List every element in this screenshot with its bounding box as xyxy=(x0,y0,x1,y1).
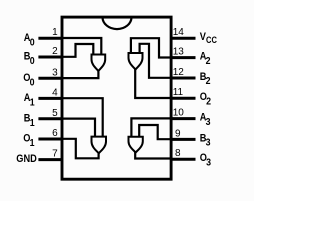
label VCC xyxy=(200,32,217,46)
wire gate2 output to pin6 O1 xyxy=(63,139,99,159)
gate U1c (top-right OR) xyxy=(129,53,143,70)
svg-text:10: 10 xyxy=(173,108,185,119)
pin 11 lead xyxy=(170,97,196,100)
svg-text:2: 2 xyxy=(52,46,58,57)
label GND xyxy=(16,153,37,165)
svg-text:0: 0 xyxy=(30,37,35,49)
wire pin12 B2 to gate3 right input xyxy=(140,44,170,78)
label O2 xyxy=(200,92,211,108)
svg-text:3: 3 xyxy=(52,67,58,78)
wire pin1 A0 to gate1 right input xyxy=(63,38,101,54)
pin 8 lead xyxy=(170,158,196,161)
svg-text:5: 5 xyxy=(52,108,58,119)
wire pin5 B1 to gate2 left input xyxy=(63,119,95,136)
svg-text:1: 1 xyxy=(30,97,35,109)
svg-text:3: 3 xyxy=(206,137,211,149)
svg-text:8: 8 xyxy=(175,148,181,159)
svg-text:2: 2 xyxy=(206,55,211,67)
svg-text:1: 1 xyxy=(30,138,35,150)
svg-text:2: 2 xyxy=(206,76,211,88)
label A0 xyxy=(24,32,35,49)
label O0 xyxy=(23,72,34,89)
pin 2 lead xyxy=(38,56,63,59)
pin 6 lead xyxy=(38,138,63,141)
svg-text:3: 3 xyxy=(206,116,211,128)
gate U1d (bottom-right OR) xyxy=(129,137,143,153)
wire pin2 B0 to gate1 left input xyxy=(63,44,93,57)
pin 14 lead xyxy=(170,37,196,40)
svg-text:1: 1 xyxy=(30,117,35,129)
pin 1 lead xyxy=(38,37,63,40)
pin 7 lead xyxy=(38,158,63,161)
svg-text:3: 3 xyxy=(206,157,211,169)
svg-text:0: 0 xyxy=(30,56,35,68)
svg-text:CC: CC xyxy=(206,34,217,45)
svg-text:7: 7 xyxy=(52,149,58,160)
wire pin4 A1 to gate2 right input xyxy=(63,98,103,136)
svg-text:V: V xyxy=(200,32,206,44)
svg-text:GND: GND xyxy=(16,153,37,165)
svg-text:12: 12 xyxy=(173,67,185,78)
pin 10 lead xyxy=(170,117,196,120)
wire gate4 output to pin8 O3 xyxy=(135,151,170,159)
label A2 xyxy=(200,51,211,67)
wire gate1 output to pin3 O0 xyxy=(63,70,98,79)
svg-text:1: 1 xyxy=(52,27,58,38)
notch (pin-1 index) xyxy=(103,17,132,29)
label B1 xyxy=(24,113,35,130)
pin 3 lead xyxy=(38,77,63,80)
pin 5 lead xyxy=(38,117,63,120)
svg-text:14: 14 xyxy=(173,27,185,38)
wire pin10 A3 to gate4 left input xyxy=(131,118,170,136)
svg-text:0: 0 xyxy=(30,77,35,89)
pin 4 lead xyxy=(38,97,63,100)
label A1 xyxy=(24,92,35,109)
pin 13 lead xyxy=(170,56,196,59)
svg-text:4: 4 xyxy=(52,87,58,98)
label B0 xyxy=(24,51,35,68)
label B2 xyxy=(200,71,211,87)
svg-text:11: 11 xyxy=(173,87,184,98)
wire pin13 A2 to gate3 left input xyxy=(131,38,170,57)
pin 12 lead xyxy=(170,77,196,80)
svg-text:2: 2 xyxy=(206,96,211,108)
svg-text:9: 9 xyxy=(175,128,181,139)
label B3 xyxy=(200,133,211,149)
gate U1b (bottom-left OR) xyxy=(92,137,107,154)
svg-text:6: 6 xyxy=(52,128,58,139)
label A3 xyxy=(200,112,211,128)
svg-text:13: 13 xyxy=(173,47,185,58)
gate U1a (top-left OR) xyxy=(92,55,106,72)
wire pin9 B3 to gate4 right input xyxy=(139,125,170,139)
label O3 xyxy=(200,153,212,169)
IC body U1 (DIP-14 outline) xyxy=(62,17,171,179)
label O1 xyxy=(23,133,35,150)
pin 9 lead xyxy=(170,138,196,141)
wire gate3 output to pin11 O2 xyxy=(135,68,170,98)
